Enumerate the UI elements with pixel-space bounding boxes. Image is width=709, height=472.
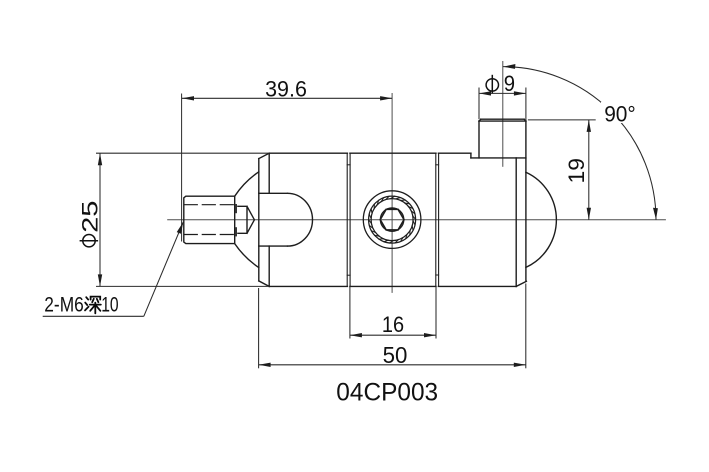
dim 16 extension right [435, 286, 437, 338]
dim 16 line [350, 334, 436, 336]
svg-text:9: 9 [504, 71, 515, 96]
arrow 90 bottom [653, 208, 658, 220]
dim text 90deg [601, 102, 639, 123]
bell arc bottom [235, 244, 259, 268]
arrow 19 bottom [587, 208, 591, 220]
dome arc right [526, 172, 556, 267]
arrow phi9 left [479, 91, 491, 95]
seam 1 tick top [347, 164, 350, 166]
dim phi9 extension left [478, 88, 480, 120]
cylinder top chamfer left [479, 119, 481, 121]
leader slant [144, 222, 184, 316]
dim 50 line [259, 364, 526, 366]
body left edge lower [268, 246, 270, 286]
dim text phi25 digits [78, 201, 103, 233]
seam 1 left line [346, 153, 348, 286]
cylinder top inner line [479, 120, 526, 122]
socket circle [380, 208, 404, 232]
svg-text:90°: 90° [604, 101, 636, 126]
centerline main horizontal [168, 219, 666, 221]
dim 39.6 extension left [181, 94, 183, 242]
cone tip of stud [238, 206, 255, 233]
seam 2 tick bottom [436, 274, 439, 276]
arrow 39.6 left [182, 96, 194, 100]
thread circle outer [369, 196, 416, 243]
body middle section top edge [350, 152, 436, 154]
socket screw outer circle [363, 191, 421, 249]
seam 2 right line [438, 153, 440, 286]
thread ring hatch ticks [369, 196, 416, 243]
cap bottom chamfer [516, 281, 526, 286]
dim text 19 [564, 158, 589, 184]
leader arrow [177, 222, 184, 234]
arrow 90 top [503, 64, 515, 69]
body left edge upper [268, 153, 270, 193]
dim 16 extension left [349, 286, 351, 338]
svg-text:50: 50 [383, 342, 408, 368]
dim 50 extension left [258, 288, 260, 368]
body right section bottom edge [438, 285, 516, 287]
cylinder top chamfer right [524, 119, 526, 121]
svg-text:10: 10 [101, 293, 118, 316]
hex socket [380, 209, 404, 230]
dim phi25 extension top [96, 152, 269, 154]
ledge under cylinder [471, 157, 526, 159]
capsule slot bottom edge [259, 245, 288, 247]
flange left edge [258, 159, 260, 281]
capsule right semicircle [288, 193, 313, 246]
thread circle inner [371, 199, 413, 241]
stud M6 outline [184, 196, 235, 243]
dim phi25 line [99, 153, 101, 286]
dim text phi9 symbol [486, 75, 498, 94]
cylinder top outer line [481, 118, 524, 120]
body left section bottom edge [269, 285, 347, 287]
arrow 19 top [587, 120, 591, 132]
cap right edge + cylinder right edge [525, 121, 527, 281]
arrow phi25 top [98, 153, 102, 165]
flange top chamfer [259, 153, 269, 158]
dim 19 line [588, 120, 590, 220]
dim 19 extension top [528, 119, 596, 121]
arrow 16 left [350, 333, 362, 337]
svg-text:2-M6: 2-M6 [44, 293, 84, 316]
seam 1 tick bottom [347, 274, 350, 276]
seam 2 tick top [436, 164, 439, 166]
cylinder phi9 left edge [478, 121, 480, 158]
body middle section bottom edge [350, 285, 436, 287]
dim phi9 extension right [525, 88, 527, 122]
svg-text:39.6: 39.6 [265, 77, 307, 102]
hanzi shen drawn [85, 297, 101, 314]
body left section top edge [269, 152, 347, 154]
svg-text:04CP003: 04CP003 [336, 378, 438, 406]
dim 50 extension right [525, 284, 527, 369]
dim 90 arc [503, 67, 656, 220]
body right section top edge [438, 152, 471, 154]
leader underline [43, 315, 144, 317]
dim text phi25 symbol [80, 235, 99, 247]
arrow 50 right [514, 363, 526, 367]
arrow phi25 bottom [98, 274, 102, 286]
svg-text:16: 16 [382, 312, 404, 337]
thread runout tick top [235, 205, 237, 213]
thread runout tick bottom [235, 228, 237, 236]
dim phi25 extension bottom [96, 285, 269, 287]
centerline vertical through circles [391, 94, 393, 293]
arrow 50 left [259, 363, 271, 367]
bell arc top [235, 172, 259, 196]
centerline vertical cylinder axis [502, 62, 504, 167]
svg-text:25: 25 [78, 201, 103, 233]
dim phi9 line [479, 92, 526, 94]
step vertical [470, 153, 472, 158]
svg-text:19: 19 [564, 158, 589, 184]
arrow phi9 right [514, 91, 526, 95]
dim 39.6 line [182, 97, 392, 99]
flange bottom chamfer [259, 281, 269, 287]
arrow 16 right [424, 333, 436, 337]
stud thread dashed line top [184, 204, 234, 206]
seam 1 right line [349, 153, 351, 286]
body right edge [515, 158, 517, 287]
stud thread dashed line bottom [184, 234, 234, 236]
seam 2 left line [435, 153, 437, 286]
capsule slot top edge [259, 192, 288, 194]
arrow 39.6 right [380, 96, 392, 100]
